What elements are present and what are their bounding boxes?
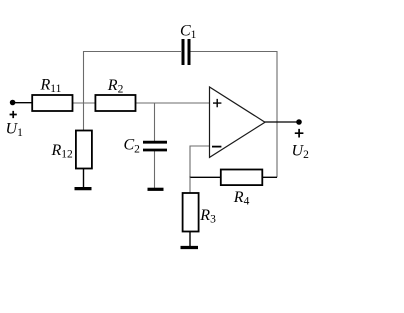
svg-text:R4: R4 xyxy=(233,189,250,208)
resistor R12 xyxy=(76,131,92,169)
wire R11 to R2 to op-amp xyxy=(32,102,210,104)
capacitor C1 plates xyxy=(183,39,189,65)
node input terminal xyxy=(10,100,16,106)
ground under R12 xyxy=(75,187,92,190)
svg-text:C2: C2 xyxy=(124,137,141,156)
svg-text:U2: U2 xyxy=(292,142,310,161)
capacitor C2 plates xyxy=(143,142,167,150)
op-amp minus input sign xyxy=(212,146,221,148)
wire C2 branch top xyxy=(154,103,156,141)
svg-text:C1: C1 xyxy=(180,22,197,41)
node output terminal xyxy=(296,119,302,125)
svg-text:U1: U1 xyxy=(6,121,24,140)
wire branch up to C1 and down to R12 xyxy=(84,52,182,132)
resistor R11 xyxy=(32,95,72,111)
wire to R4 left xyxy=(190,176,222,178)
wire inverting input down xyxy=(190,146,210,177)
resistor R2 xyxy=(95,95,135,111)
label + at U2 xyxy=(295,129,304,138)
wire op-amp output xyxy=(264,121,299,123)
wire R12 to ground xyxy=(83,168,85,188)
label + at U1 xyxy=(10,111,17,118)
wire top feedback right of C1 down to output net xyxy=(190,52,277,178)
svg-text:R3: R3 xyxy=(199,207,216,226)
svg-text:R2: R2 xyxy=(107,77,124,96)
wire R3 top xyxy=(189,177,191,193)
resistor R4 xyxy=(221,170,262,186)
wire C2 to ground xyxy=(154,151,156,188)
wire main input line xyxy=(13,102,34,104)
ground under R3 xyxy=(181,246,199,249)
op-amp U triangle xyxy=(210,87,266,157)
wire R4 right to output net xyxy=(262,176,277,178)
svg-text:R12: R12 xyxy=(51,142,74,161)
resistor R3 xyxy=(183,193,199,232)
svg-text:R11: R11 xyxy=(40,77,62,96)
ground under C2 xyxy=(148,188,164,191)
wire R3 to ground xyxy=(189,231,191,246)
op-amp plus input sign xyxy=(213,99,221,107)
